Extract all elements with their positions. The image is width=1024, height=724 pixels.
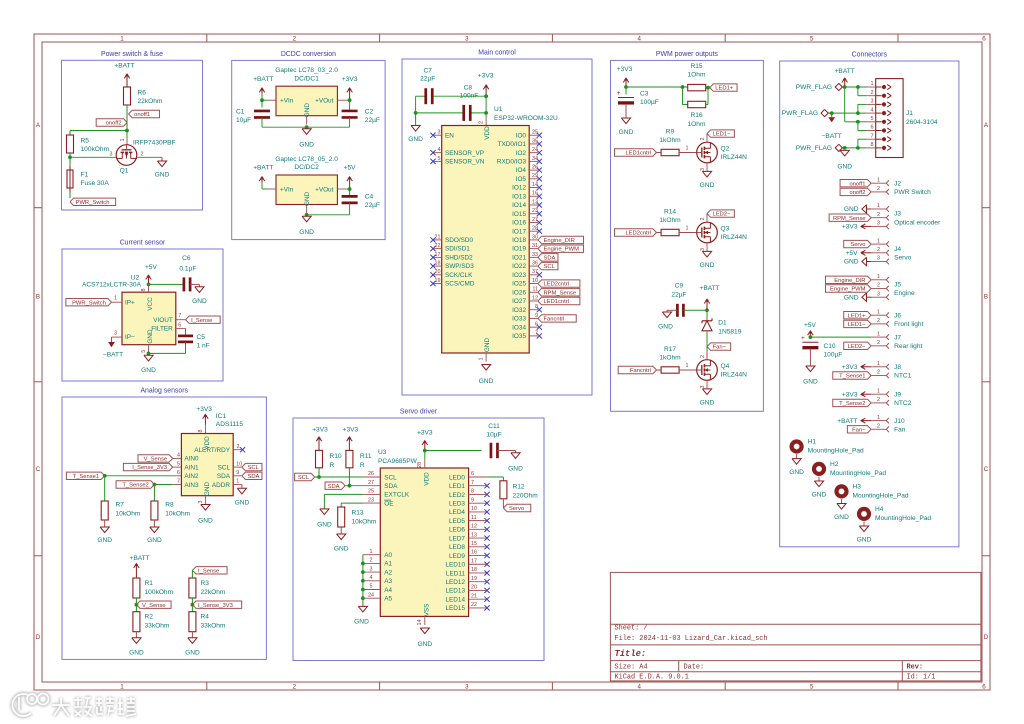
svg-text:PWR_FLAG: PWR_FLAG [796,84,832,91]
svg-text:3: 3 [877,291,880,297]
svg-text:SENSOR_VP: SENSOR_VP [445,150,484,157]
svg-text:PWR_FLAG: PWR_FLAG [796,145,832,152]
svg-text:3: 3 [877,221,880,227]
svg-text:2604-3104: 2604-3104 [906,119,938,126]
svg-text:C8: C8 [464,84,473,91]
svg-text:DC/DC2: DC/DC2 [294,164,319,171]
svg-text:R4: R4 [201,614,210,621]
svg-text:LED2−: LED2− [848,344,867,350]
svg-text:GND: GND [844,294,859,301]
svg-text:Rev:: Rev: [907,663,924,671]
svg-text:C1: C1 [236,109,245,116]
svg-text:IO15: IO15 [512,211,526,218]
svg-text:22µF: 22µF [365,117,380,124]
svg-text:J6: J6 [894,312,901,319]
svg-text:C10: C10 [824,343,836,350]
svg-text:SCL: SCL [544,264,556,270]
svg-text:ADS1115: ADS1115 [216,421,244,428]
svg-text:+BATT: +BATT [699,285,719,292]
svg-text:Fancntrl: Fancntrl [630,368,651,374]
svg-text:C: C [984,466,989,473]
svg-text:LED2−: LED2− [713,212,732,218]
svg-text:IRFP7430PBF: IRFP7430PBF [133,140,176,147]
svg-text:2: 2 [877,370,880,376]
svg-text:Engine_DIR: Engine_DIR [544,238,575,244]
svg-text:J4: J4 [894,246,901,253]
svg-text:LED5: LED5 [449,518,465,525]
svg-text:DCDC conversion: DCDC conversion [281,51,336,58]
svg-text:A0: A0 [384,552,392,559]
svg-text:10µF: 10µF [236,117,251,124]
svg-text:LED1−: LED1− [713,132,732,138]
svg-text:NTC1: NTC1 [894,373,912,380]
svg-text:2: 2 [141,152,144,158]
svg-text:1N5819: 1N5819 [718,328,741,335]
svg-text:2: 2 [479,121,485,124]
svg-text:R5: R5 [81,138,90,145]
svg-text:6: 6 [178,323,181,329]
svg-text:7: 7 [471,480,474,486]
svg-text:SHD/SD2: SHD/SD2 [445,254,473,261]
svg-text:GND: GND [185,649,200,656]
svg-text:Q1: Q1 [120,168,129,175]
svg-text:FILTER: FILTER [151,326,173,333]
svg-text:3: 3 [700,386,706,389]
svg-text:24: 24 [368,592,374,598]
svg-text:GND: GND [299,229,314,236]
svg-text:V_Sense: V_Sense [142,603,166,609]
svg-text:3: 3 [700,168,706,171]
svg-text:LED2cntrl: LED2cntrl [544,282,569,288]
svg-text:GND: GND [334,546,349,553]
svg-text:GND: GND [812,491,827,498]
svg-text:22µF: 22µF [671,291,686,298]
svg-text:GND: GND [408,136,423,143]
svg-text:GND: GND [700,182,715,189]
svg-text:SDA: SDA [384,483,398,490]
svg-text:2: 2 [877,318,880,324]
svg-text:2: 2 [700,138,706,141]
svg-text:PWM power outputs: PWM power outputs [656,51,719,58]
svg-text:+3V3: +3V3 [842,224,858,231]
svg-text:2: 2 [871,90,874,96]
svg-text:LED10: LED10 [445,562,465,569]
svg-text:IO27: IO27 [512,298,526,305]
svg-text:V_Sense: V_Sense [144,457,168,463]
svg-text:4: 4 [438,147,441,153]
svg-text:LED14: LED14 [445,596,465,603]
svg-text:D: D [984,634,989,641]
svg-text:GND: GND [129,649,144,656]
svg-text:J5: J5 [894,282,901,289]
svg-text:PWR_Switch: PWR_Switch [76,200,110,206]
svg-text:onoff1: onoff1 [134,112,150,118]
svg-text:Main control: Main control [478,50,516,57]
svg-text:3: 3 [198,501,204,504]
svg-text:+: + [801,335,805,342]
svg-text:GND: GND [198,518,213,525]
svg-text:11: 11 [471,515,477,521]
svg-text:Fan: Fan [894,427,906,434]
svg-text:J9: J9 [894,391,901,398]
svg-text:LED0: LED0 [449,474,465,481]
svg-text:GND: GND [844,259,859,266]
svg-text:A1: A1 [384,561,392,568]
svg-text:23: 23 [368,497,374,503]
svg-text:IO26: IO26 [512,289,526,296]
svg-text:IC1: IC1 [216,413,227,420]
svg-text:IO34: IO34 [512,324,526,331]
svg-text:SDO/SD0: SDO/SD0 [445,237,474,244]
svg-text:3: 3 [114,331,117,337]
svg-text:2: 2 [877,283,880,289]
svg-text:RXD0/IO3: RXD0/IO3 [497,158,527,165]
svg-text:SDA: SDA [544,255,556,261]
svg-text:3: 3 [465,36,469,43]
svg-text:220Ohm: 220Ohm [513,492,539,499]
svg-text:LED2cntrl: LED2cntrl [625,231,650,237]
svg-text:Rear light: Rear light [894,343,922,350]
svg-text:C4: C4 [365,194,374,201]
svg-text:Engine_PWM: Engine_PWM [830,287,866,293]
svg-text:J2: J2 [894,180,901,187]
svg-text:1: 1 [877,309,880,315]
svg-text:9: 9 [236,470,239,476]
svg-text:Servo: Servo [509,506,524,512]
svg-text:Servo: Servo [894,255,912,262]
svg-text:Fan−: Fan− [852,427,866,433]
svg-text:+: + [617,90,621,97]
svg-text:SCS/CMD: SCS/CMD [445,281,475,288]
svg-text:10kOhm: 10kOhm [165,511,190,518]
svg-text:8: 8 [198,430,204,433]
svg-text:LED1: LED1 [449,483,465,490]
svg-text:22kOhm: 22kOhm [138,98,163,105]
svg-text:U1: U1 [494,106,503,113]
svg-text:21: 21 [471,593,477,599]
svg-text:25: 25 [368,489,374,495]
svg-text:LED7: LED7 [449,535,465,542]
svg-text:7: 7 [178,313,181,319]
svg-text:SCL: SCL [218,464,231,471]
svg-text:1: 1 [370,549,373,555]
svg-text:+BATT: +BATT [253,165,273,172]
svg-text:−BATT: −BATT [103,352,123,359]
svg-text:Fancntrl: Fancntrl [544,317,565,323]
svg-text:T_Sense1: T_Sense1 [73,474,99,480]
svg-text:GND: GND [658,323,673,330]
svg-text:MountingHole_Pad: MountingHole_Pad [875,515,931,522]
svg-text:1: 1 [877,274,880,280]
svg-text:IO22: IO22 [512,263,526,270]
svg-text:1: 1 [120,684,124,691]
svg-text:3: 3 [877,256,880,262]
svg-text:KiCad E.D.A. 9.0.1: KiCad E.D.A. 9.0.1 [615,674,689,682]
svg-text:IO13: IO13 [512,193,526,200]
svg-text:T_Sense2: T_Sense2 [839,401,865,407]
svg-text:IRLZ44N: IRLZ44N [721,154,748,161]
svg-text:DC/DC1: DC/DC1 [294,75,319,82]
svg-text:EN: EN [445,132,454,139]
svg-text:onoff1: onoff1 [849,181,865,187]
svg-text:I_Sense: I_Sense [191,318,212,324]
svg-text:C: C [36,466,41,473]
svg-text:IO0: IO0 [516,132,527,139]
svg-text:36: 36 [532,260,538,266]
svg-text:1: 1 [871,81,874,87]
svg-text:A3: A3 [384,578,392,585]
svg-text:Q3: Q3 [721,225,730,232]
svg-text:LED1cntrl: LED1cntrl [625,151,650,157]
svg-text:GND: GND [803,378,818,385]
svg-text:100kOhm: 100kOhm [145,589,174,596]
svg-text:AIN2: AIN2 [184,473,199,480]
svg-text:19: 19 [471,576,477,582]
svg-text:IRLZ44N: IRLZ44N [721,372,748,379]
svg-text:GND: GND [97,537,112,544]
svg-text:5: 5 [871,116,874,122]
svg-text:GND: GND [317,522,332,529]
svg-text:10: 10 [471,506,477,512]
svg-text:GND: GND [700,400,715,407]
svg-text:4: 4 [637,684,641,691]
svg-text:5: 5 [810,36,814,43]
svg-text:2: 2 [877,186,880,192]
svg-text:SDA: SDA [248,474,260,480]
svg-text:2: 2 [877,212,880,218]
svg-text:GND: GND [141,367,156,374]
svg-text:17: 17 [471,558,477,564]
svg-text:1: 1 [686,225,689,231]
svg-text:A5: A5 [384,596,392,603]
svg-text:6: 6 [982,684,986,691]
svg-text:IRLZ44N: IRLZ44N [721,234,748,241]
svg-text:6: 6 [871,125,874,131]
svg-text:Id: 1/1: Id: 1/1 [907,674,936,682]
svg-text:Sheet: /: Sheet: / [615,625,648,633]
svg-text:IO4: IO4 [516,167,527,174]
svg-text:2: 2 [237,444,240,450]
svg-text:ADDR: ADDR [212,482,230,489]
svg-text:30: 30 [532,234,538,240]
svg-text:GND: GND [484,338,491,353]
svg-text:OE: OE [384,500,393,507]
svg-text:10: 10 [236,461,242,467]
svg-text:100nF: 100nF [460,93,479,100]
svg-text:C2: C2 [365,109,374,116]
svg-text:2: 2 [877,424,880,430]
svg-text:R16: R16 [690,112,702,119]
svg-text:IP−: IP− [125,334,135,341]
svg-text:R: R [360,462,365,469]
svg-text:26: 26 [368,471,374,477]
svg-text:ALERT/RDY: ALERT/RDY [194,447,230,454]
svg-text:+BATT: +BATT [129,555,149,562]
svg-text:1: 1 [877,177,880,183]
svg-text:Servo: Servo [850,242,865,248]
svg-text:B: B [36,293,40,300]
svg-text:5: 5 [370,584,373,590]
svg-text:IO17: IO17 [512,228,526,235]
svg-text:Title:: Title: [615,649,647,659]
svg-text:2: 2 [293,36,297,43]
svg-text:R9: R9 [666,128,675,135]
svg-text:GND: GND [192,298,207,305]
svg-text:1: 1 [877,331,880,337]
svg-text:27: 27 [368,480,374,486]
svg-text:C5: C5 [197,334,206,341]
svg-text:1: 1 [877,203,880,209]
svg-text:PWR Switch: PWR Switch [894,189,931,196]
svg-text:IO23: IO23 [512,272,526,279]
svg-text:VDD: VDD [423,472,430,486]
svg-text:+BATT: +BATT [114,63,134,70]
svg-text:GND: GND [844,206,859,213]
svg-text:6: 6 [982,36,986,43]
svg-text:9: 9 [535,313,538,319]
svg-text:R13: R13 [352,510,364,517]
svg-text:+3V3: +3V3 [842,364,858,371]
svg-text:GND: GND [354,618,369,625]
svg-text:U3: U3 [378,449,387,456]
svg-text:MountingHole_Pad: MountingHole_Pad [808,448,864,455]
svg-text:SENSOR_VN: SENSOR_VN [445,158,485,165]
svg-text:Power switch & fuse: Power switch & fuse [101,51,163,58]
svg-text:Front light: Front light [894,321,923,328]
svg-text:AIN3: AIN3 [184,482,199,489]
svg-text:ACS712xLCTR-30A: ACS712xLCTR-30A [82,282,142,289]
svg-text:H3: H3 [853,484,862,491]
svg-text:H2: H2 [830,461,839,468]
svg-text:1kOhm: 1kOhm [659,355,681,362]
svg-text:IO32: IO32 [512,307,526,314]
svg-text:Current sensor: Current sensor [120,240,166,247]
svg-text:Engine_PWM: Engine_PWM [544,247,580,253]
svg-text:R14: R14 [664,208,676,215]
svg-text:J7: J7 [894,334,901,341]
svg-text:SCL: SCL [384,474,397,481]
svg-text:Servo driver: Servo driver [400,409,438,416]
svg-text:IP+: IP+ [125,299,135,306]
svg-text:R10: R10 [330,453,342,460]
svg-text:2: 2 [293,684,297,691]
svg-text:AIN1: AIN1 [184,464,199,471]
svg-text:J8: J8 [894,364,901,371]
svg-text:22µF: 22µF [420,76,435,83]
svg-text:Engine_DIR: Engine_DIR [834,278,865,284]
svg-text:LED1+: LED1+ [715,86,734,92]
svg-text:2: 2 [877,397,880,403]
svg-text:GND: GND [299,142,314,149]
svg-text:I_Sense: I_Sense [198,568,219,574]
svg-text:100µF: 100µF [824,352,843,359]
svg-text:R15: R15 [690,63,702,70]
svg-text:A2: A2 [384,569,392,576]
svg-text:1: 1 [686,145,689,151]
svg-text:VCC: VCC [147,297,154,311]
svg-text:+3V3: +3V3 [842,391,858,398]
svg-text:10µF: 10µF [486,431,501,438]
svg-text:ESP32-WROOM-32U: ESP32-WROOM-32U [494,115,558,122]
svg-text:3: 3 [871,99,874,105]
svg-text:1: 1 [877,361,880,367]
svg-text:+5V: +5V [145,264,158,271]
svg-text:+3V3: +3V3 [343,427,359,434]
svg-text:GND: GND [417,641,432,648]
svg-text:+BATT: +BATT [837,418,857,425]
svg-text:10: 10 [532,278,538,284]
svg-text:+VOut: +VOut [315,98,334,105]
svg-text:C6: C6 [182,255,191,262]
svg-text:2: 2 [877,340,880,346]
svg-text:H1: H1 [808,439,817,446]
svg-text:C3: C3 [640,91,649,98]
svg-text:4: 4 [871,107,874,113]
svg-text:Size: A4: Size: A4 [615,663,648,671]
svg-text:7: 7 [535,330,538,336]
svg-text:18: 18 [471,567,477,573]
svg-text:Gaptec LC78_03_2.0: Gaptec LC78_03_2.0 [275,67,338,74]
svg-text:EXTCLK: EXTCLK [384,492,410,499]
svg-text:LED8: LED8 [449,544,465,551]
svg-text:GND: GND [789,469,804,476]
svg-text:SCL: SCL [298,475,310,481]
svg-text:2: 2 [700,355,706,358]
svg-text:6: 6 [177,470,180,476]
svg-text:GND: GND [857,536,872,543]
svg-text:1kOhm: 1kOhm [659,137,681,144]
svg-text:R1: R1 [145,580,154,587]
svg-text:C9: C9 [675,283,684,290]
svg-text:5: 5 [141,350,147,353]
svg-text:SCL: SCL [248,465,260,471]
svg-text:+BATT: +BATT [253,76,273,83]
svg-text:17: 17 [435,252,441,258]
svg-text:IO19: IO19 [512,246,526,253]
svg-text:Date:: Date: [684,663,705,671]
svg-text:R6: R6 [138,90,147,97]
svg-text:LED3: LED3 [449,500,465,507]
svg-text:Fan−: Fan− [713,345,727,351]
svg-text:14: 14 [417,620,423,626]
svg-text:8: 8 [471,489,474,495]
svg-text:1Ohm: 1Ohm [688,72,706,79]
svg-text:1: 1 [877,415,880,421]
svg-text:A4: A4 [384,587,392,594]
svg-text:12: 12 [532,295,538,301]
svg-text:7: 7 [871,133,874,139]
svg-text:5: 5 [438,156,441,162]
svg-text:LED12: LED12 [445,579,465,586]
svg-text:4: 4 [370,575,373,581]
svg-text:2: 2 [700,218,706,221]
svg-text:16: 16 [471,550,477,556]
svg-text:C11: C11 [488,423,500,430]
svg-text:LED6: LED6 [449,527,465,534]
svg-text:D: D [36,634,41,641]
svg-text:22kOhm: 22kOhm [201,589,226,596]
svg-text:TXD0/IO1: TXD0/IO1 [498,141,527,148]
svg-text:20: 20 [435,269,441,275]
svg-text:9: 9 [471,497,474,503]
svg-text:LED1+: LED1+ [848,313,867,319]
svg-text:I_Sense_3V3: I_Sense_3V3 [132,465,167,471]
svg-text:SDA: SDA [217,473,231,480]
svg-text:T_Sense1: T_Sense1 [839,374,865,380]
svg-text:5: 5 [177,461,180,467]
svg-text:IO12: IO12 [512,185,526,192]
svg-text:19: 19 [435,278,441,284]
